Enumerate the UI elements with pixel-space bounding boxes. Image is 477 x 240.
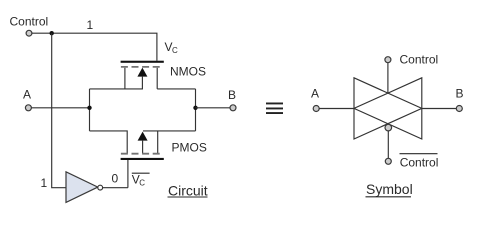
transistor PMOS M2 (90, 131, 196, 188)
svg-text:Control: Control (400, 53, 439, 67)
terminal B circle (230, 105, 236, 111)
svg-text:Symbol: Symbol (366, 181, 413, 197)
wire control top to NMOS gate (32, 33, 157, 61)
svg-text:Circuit: Circuit (168, 182, 208, 198)
terminal B circle (symbol) (456, 106, 462, 112)
label Control-bar (symbol bottom, overlined) (400, 154, 439, 170)
bubble control-bar (symbol) (385, 124, 392, 131)
label VC-bar (PMOS gate) (132, 173, 150, 188)
label VC (NMOS gate) (165, 40, 179, 55)
svg-text:B: B (228, 88, 236, 102)
svg-text:NMOS: NMOS (170, 65, 206, 79)
wire A to symbol (319, 108, 354, 110)
wire symbol B (422, 108, 456, 110)
transmission gate symbol: left-pointing triangle (354, 78, 422, 139)
terminal Control-bar circle (symbol bottom) (385, 158, 391, 164)
svg-text:1: 1 (41, 176, 48, 190)
svg-text:1: 1 (87, 18, 94, 32)
terminal A circle (symbol) (313, 106, 319, 112)
svg-text:Control: Control (400, 156, 439, 170)
equivalence sign (266, 103, 283, 115)
node left branch vertical (89, 89, 91, 131)
label Symbol (underlined) (366, 181, 413, 197)
node right branch vertical (195, 89, 197, 131)
wire symbol control bottom (387, 131, 389, 158)
svg-text:Control: Control (10, 15, 49, 29)
wire symbol control top (387, 63, 389, 93)
wire A rail (32, 107, 90, 109)
terminal A circle (25, 105, 31, 111)
svg-text:C: C (139, 179, 145, 188)
svg-text:C: C (172, 46, 178, 55)
svg-text:PMOS: PMOS (172, 140, 207, 154)
svg-text:B: B (456, 86, 464, 100)
label Circuit (underlined) (168, 182, 208, 198)
junction node right (193, 106, 197, 110)
wire control down to inverter input (52, 33, 66, 188)
transmission gate symbol: right-pointing triangle (354, 78, 422, 139)
transistor NMOS M1 (90, 61, 196, 89)
svg-text:A: A (311, 87, 319, 101)
wire B rail (196, 107, 231, 109)
svg-text:0: 0 (112, 172, 119, 186)
terminal Control circle (symbol top) (385, 57, 391, 63)
svg-text:A: A (23, 88, 31, 102)
inverter U1 triangle (66, 172, 98, 203)
junction node left (87, 106, 91, 110)
terminal Control circle (26, 30, 32, 36)
junction control node (50, 31, 54, 35)
inverter U1 bubble (98, 185, 103, 190)
wire inverter output to PMOS gate (103, 187, 128, 189)
